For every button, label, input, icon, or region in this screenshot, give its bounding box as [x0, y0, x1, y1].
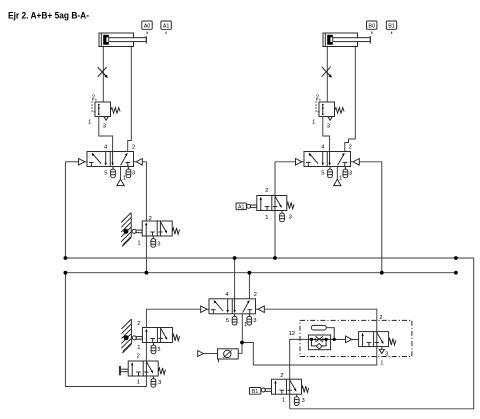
svg-text:3: 3	[157, 347, 160, 353]
svg-text:5: 5	[104, 171, 107, 177]
svg-text:3: 3	[289, 215, 292, 221]
svg-text:1: 1	[339, 176, 342, 182]
svg-text:3: 3	[103, 124, 106, 130]
svg-text:2: 2	[137, 353, 140, 359]
svg-text:5: 5	[226, 318, 229, 324]
svg-text:3: 3	[349, 171, 352, 177]
svg-text:5: 5	[321, 171, 324, 177]
svg-text:2: 2	[254, 292, 257, 298]
svg-text:A0: A0	[144, 23, 151, 29]
svg-text:3: 3	[253, 318, 256, 324]
svg-text:1: 1	[265, 215, 268, 221]
svg-text:2: 2	[132, 144, 135, 150]
svg-text:1: 1	[123, 176, 126, 182]
svg-text:1: 1	[137, 240, 140, 246]
svg-text:1: 1	[137, 345, 140, 351]
svg-text:A1: A1	[163, 23, 170, 29]
svg-text:2: 2	[349, 144, 352, 150]
svg-text:3: 3	[327, 124, 330, 130]
svg-text:2: 2	[316, 94, 319, 100]
svg-text:2: 2	[280, 373, 283, 379]
svg-text:1: 1	[88, 120, 91, 126]
svg-text:B1: B1	[252, 389, 258, 395]
svg-text:3: 3	[132, 171, 135, 177]
svg-text:A1: A1	[238, 205, 244, 211]
svg-text:1: 1	[312, 120, 315, 126]
svg-text:Ejr 2. A+B+ 5ag B-A-: Ejr 2. A+B+ 5ag B-A-	[8, 10, 89, 21]
svg-text:3: 3	[385, 352, 388, 358]
svg-text:1: 1	[282, 397, 285, 403]
svg-text:1: 1	[380, 361, 383, 367]
svg-text:B1: B1	[388, 23, 395, 29]
svg-text:2: 2	[265, 188, 268, 194]
svg-text:2: 2	[149, 216, 152, 222]
svg-text:2: 2	[92, 94, 95, 100]
svg-text:1: 1	[137, 379, 140, 385]
svg-text:2: 2	[137, 321, 140, 327]
svg-text:3: 3	[158, 380, 161, 386]
svg-text:3: 3	[301, 398, 304, 404]
svg-text:3: 3	[157, 241, 160, 247]
svg-text:12: 12	[289, 331, 295, 337]
svg-text:1: 1	[244, 322, 247, 328]
svg-text:2: 2	[379, 315, 382, 321]
svg-text:B0: B0	[368, 23, 375, 29]
